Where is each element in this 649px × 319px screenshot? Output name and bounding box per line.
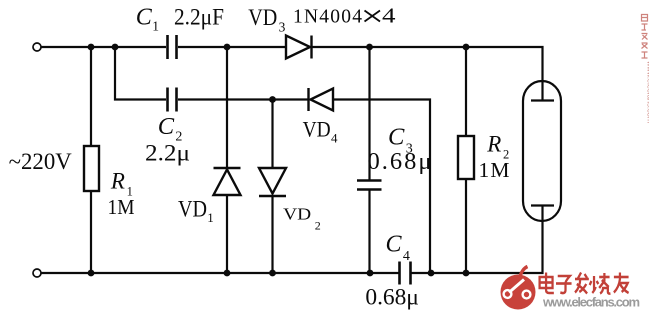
svg-text:2: 2 — [315, 218, 321, 232]
svg-text:www.elecfans.com: www.elecfans.com — [542, 295, 640, 310]
svg-text:4: 4 — [403, 249, 410, 264]
svg-text:2.2μ: 2.2μ — [145, 141, 190, 167]
svg-text:4: 4 — [382, 3, 396, 27]
svg-text:C: C — [386, 232, 403, 258]
svg-text:C: C — [388, 124, 405, 151]
svg-text:4: 4 — [331, 130, 338, 145]
svg-text:0.68μ: 0.68μ — [365, 285, 419, 311]
svg-text:1M: 1M — [108, 195, 135, 219]
svg-text:0.68μ: 0.68μ — [368, 148, 432, 175]
svg-text:C: C — [136, 4, 153, 30]
svg-text:C: C — [158, 113, 175, 140]
svg-text:R: R — [110, 169, 125, 194]
svg-text:www.elecfans.com: www.elecfans.com — [646, 60, 649, 123]
svg-text:VD: VD — [283, 205, 311, 224]
svg-text:VD: VD — [303, 117, 331, 142]
svg-text:3: 3 — [279, 19, 286, 34]
svg-text:1M: 1M — [479, 158, 510, 182]
svg-text:R: R — [486, 132, 501, 157]
svg-text:VD: VD — [178, 197, 207, 222]
svg-text:1N4004: 1N4004 — [293, 6, 362, 27]
svg-text:~220V: ~220V — [9, 149, 73, 174]
svg-text:1: 1 — [207, 210, 214, 225]
svg-text:2.2μF: 2.2μF — [174, 5, 224, 31]
svg-text:1: 1 — [152, 19, 159, 34]
svg-text:VD: VD — [248, 5, 277, 31]
